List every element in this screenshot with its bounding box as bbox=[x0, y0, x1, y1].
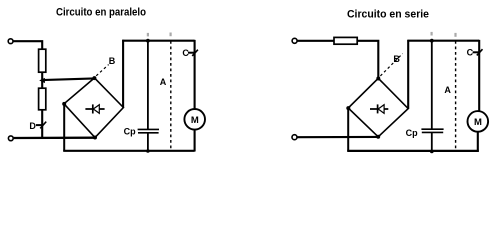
gray stub above dashed line A bbox=[170, 33, 172, 37]
svg-text:Cp: Cp bbox=[406, 128, 418, 138]
svg-text:Cp: Cp bbox=[124, 126, 136, 136]
capacitor Cp plates bbox=[138, 128, 159, 130]
contact D bar bbox=[36, 124, 43, 126]
svg-text:A: A bbox=[444, 85, 451, 95]
wire J3 to R3 bbox=[297, 40, 334, 42]
capacitor Cp2 plates bbox=[421, 128, 443, 130]
junction dot bridge2 bottom corner bbox=[376, 135, 380, 139]
wire motor M1 to bottom bus bbox=[194, 130, 196, 152]
motor M2 bbox=[468, 111, 489, 132]
dashed line A2 bbox=[455, 41, 457, 151]
wire R3 to bridge top corner bbox=[357, 41, 378, 79]
wire bridge right corner up bbox=[122, 40, 124, 108]
svg-text:B: B bbox=[109, 56, 116, 66]
junction dot Cp2 top bbox=[430, 39, 434, 43]
svg-text:M: M bbox=[474, 117, 482, 128]
motor M1 bbox=[184, 109, 205, 130]
wire bridge2 right corner up bbox=[407, 40, 409, 109]
capacitor Cp2 branch upper wire bbox=[431, 41, 433, 129]
terminal J4 (bottom left, serie) bbox=[292, 135, 297, 140]
terminal J3 (top left, serie) bbox=[292, 38, 297, 43]
bottom bus wire (serie) bbox=[347, 150, 479, 152]
junction dot bridge2 top corner bbox=[376, 77, 380, 81]
resistor R1 bbox=[39, 49, 46, 72]
svg-text:B: B bbox=[393, 54, 400, 64]
svg-text:A: A bbox=[160, 77, 167, 87]
dashed pointer to label B bbox=[96, 65, 108, 76]
junction dot Cp2 bottom bbox=[430, 150, 434, 154]
gray stub above Cp junction bbox=[147, 33, 149, 37]
capacitor Cp2 branch lower wire bbox=[431, 132, 433, 151]
top bus wire bbox=[122, 40, 194, 42]
resistor R3 bbox=[334, 37, 357, 44]
junction dot bridge top corner bbox=[92, 76, 96, 80]
contact D slash bbox=[40, 122, 46, 129]
tap arrowhead at R1/R2 junction bbox=[39, 78, 45, 83]
junction dot Cp bottom bbox=[146, 149, 150, 153]
junction dot Cp top bbox=[146, 39, 150, 43]
junction dot bridge bottom corner bbox=[93, 136, 97, 140]
capacitor Cp branch lower wire bbox=[147, 133, 149, 151]
contact C2 bar bbox=[473, 51, 480, 53]
bottom bus wire (lower) bbox=[63, 150, 194, 152]
contact C bar bbox=[188, 52, 195, 54]
svg-text:D: D bbox=[29, 121, 36, 131]
terminal J2 (bottom left) bbox=[8, 136, 13, 141]
wire tap to bridge top corner bbox=[42, 78, 94, 80]
svg-text:Circuito en serie: Circuito en serie bbox=[347, 9, 429, 21]
svg-text:C: C bbox=[182, 48, 189, 58]
bottom wire J2 to bridge bottom corner bbox=[14, 137, 95, 140]
bridge rectifier B2 (diamond) bbox=[348, 78, 408, 137]
wire bridge left corner down bbox=[63, 104, 65, 151]
resistor R2 bbox=[39, 88, 46, 110]
wire R2 down through contact D to bottom wire bbox=[41, 110, 43, 138]
wire top right corner down to contact C2 bbox=[478, 40, 480, 111]
svg-text:M: M bbox=[191, 115, 199, 126]
contact C slash bbox=[192, 50, 198, 56]
contact C2 slash bbox=[477, 49, 483, 55]
svg-text:Circuito en paralelo: Circuito en paralelo bbox=[56, 7, 146, 19]
diode inside bridge B2 bbox=[370, 104, 388, 113]
wire J4 to bridge2 bottom corner bbox=[297, 136, 378, 138]
wire top right corner down to contact C bbox=[194, 40, 196, 109]
gray stub above dashed line A2 bbox=[454, 33, 456, 37]
wire R1 to tap junction bbox=[41, 72, 43, 88]
top bus wire (serie) bbox=[407, 40, 479, 42]
dashed pointer to label B2 bbox=[380, 54, 402, 76]
terminal J1 (top left) bbox=[8, 39, 13, 44]
wire motor M2 to bottom bus bbox=[477, 132, 479, 152]
junction dot bridge left corner bbox=[62, 102, 66, 106]
junction dot bridge2 left corner bbox=[346, 106, 350, 110]
capacitor Cp branch upper wire bbox=[147, 41, 149, 130]
bridge rectifier B1 (diamond) bbox=[64, 78, 123, 138]
wire bridge2 left corner down bbox=[347, 108, 349, 151]
gray stub above Cp2 junction bbox=[431, 32, 433, 36]
diode inside bridge B1 bbox=[85, 104, 104, 113]
wire J1 to R1 top bbox=[13, 41, 42, 49]
svg-text:C: C bbox=[467, 48, 474, 58]
dashed line A bbox=[170, 41, 172, 151]
